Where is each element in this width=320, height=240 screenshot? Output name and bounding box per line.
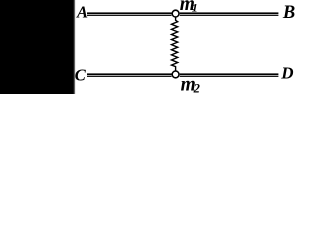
svg-text:2: 2 [193,82,200,94]
mass m2 bead (circle on wire CD) [172,71,179,78]
svg-text:B: B [282,3,295,23]
svg-text:D: D [280,64,293,83]
wire C-D right segment (double line) [180,73,279,77]
svg-text:1: 1 [192,1,198,15]
svg-text:C: C [75,66,87,85]
svg-text:A: A [76,3,88,22]
spring between m1 and m2 [172,18,178,71]
wire A-B left segment (double line) [87,12,172,16]
wire A-B right segment (double line) [180,12,279,16]
mass m1 bead (circle on wire AB) [172,10,179,17]
wire C-D left segment (double line) [87,73,172,77]
